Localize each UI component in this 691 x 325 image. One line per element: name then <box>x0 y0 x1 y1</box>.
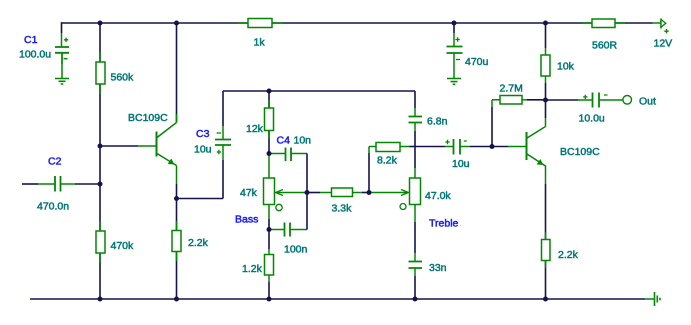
resistor 12k <box>265 108 274 131</box>
ground right end of bottom rail <box>655 292 661 306</box>
node top rail 10k <box>543 21 548 26</box>
svg-text:2.2k: 2.2k <box>188 237 209 249</box>
svg-text:1.2k: 1.2k <box>242 263 263 275</box>
resistor 560k <box>96 62 105 84</box>
wire 33n to bottom rail <box>414 268 416 276</box>
wire C1 top lead <box>61 22 63 33</box>
wire 12V lead <box>653 22 662 24</box>
resistor 1k <box>248 19 272 28</box>
wire 8.2k right to cross <box>400 146 410 148</box>
svg-text:C4: C4 <box>277 135 291 147</box>
svg-text:100n: 100n <box>284 244 308 256</box>
potentiometer Treble wiper arrow <box>401 190 409 196</box>
node top rail x100 <box>98 21 103 26</box>
svg-text:2.2k: 2.2k <box>558 249 579 261</box>
node bottom rail 33n <box>413 297 418 302</box>
potentiometer Bass wiper arrow <box>276 190 284 196</box>
power connector 12V arrow <box>660 19 662 29</box>
wire bass pot top lead <box>268 154 270 179</box>
wire output row <box>546 99 579 101</box>
svg-text:100.0u: 100.0u <box>19 49 51 61</box>
svg-text:Out: Out <box>639 96 656 108</box>
ground C1 <box>61 53 63 79</box>
svg-text:10u: 10u <box>194 144 212 156</box>
potentiometer 47k Bass body <box>264 178 275 205</box>
capacitor C1 100.0u <box>55 47 69 53</box>
node Q2 base <box>490 144 495 149</box>
node bottom rail 470k <box>98 297 103 302</box>
node collector 2.7M out <box>543 98 548 103</box>
resistor 560R <box>592 19 615 28</box>
capacitor C3 10u <box>215 140 231 146</box>
wire cross to 10u <box>415 146 445 148</box>
resistor 1.2k <box>265 255 274 276</box>
svg-text:Bass: Bass <box>235 214 258 226</box>
svg-text:BC109C: BC109C <box>128 112 168 124</box>
node pot bottom 100n <box>267 227 272 232</box>
wire C3 top to mid rail <box>222 91 224 126</box>
svg-text:12k: 12k <box>246 123 264 135</box>
capacitor C2 470.0n <box>55 176 61 192</box>
wire bottom ground rail <box>30 298 645 300</box>
svg-text:C1: C1 <box>24 34 38 46</box>
resistor 470k <box>96 231 105 253</box>
node C2 <box>98 182 103 187</box>
svg-text:470u: 470u <box>465 56 489 68</box>
wire 10k column top <box>545 23 547 48</box>
wire 1.2k column <box>268 230 270 250</box>
capacitor 33n <box>409 262 423 269</box>
svg-text:C2: C2 <box>48 156 62 168</box>
wire treble pot bottom to 33n <box>414 205 416 223</box>
resistor 2.2k left <box>172 231 181 252</box>
wire 3.3k to junction <box>353 192 363 194</box>
transistor Q1 BC109C <box>156 132 158 157</box>
svg-text:Treble: Treble <box>429 218 459 230</box>
svg-text:1k: 1k <box>254 37 266 49</box>
svg-text:470k: 470k <box>111 240 135 252</box>
wire mid rail <box>223 90 415 92</box>
capacitor 10.0u output <box>593 93 600 108</box>
ground 470u <box>453 53 455 79</box>
capacitor 470u <box>447 47 463 54</box>
node Q1 emitter <box>174 196 179 201</box>
svg-text:8.2k: 8.2k <box>377 155 398 167</box>
wire input stub to C2 <box>22 183 38 185</box>
wire bass pot bottom lead <box>268 205 270 220</box>
wire C4 row <box>269 153 286 155</box>
resistor 2.7M <box>500 96 522 105</box>
node bass wiper <box>305 190 310 195</box>
terminal Out <box>623 96 632 105</box>
wire left column x=100 <box>99 23 101 299</box>
node top rail 470u <box>452 21 457 26</box>
wire top supply rail <box>62 22 653 24</box>
svg-text:3.3k: 3.3k <box>332 203 353 215</box>
wire 2.2k left column <box>176 199 178 300</box>
wire wiper node to 3.3k <box>307 192 320 194</box>
potentiometer Bass circle <box>276 204 282 210</box>
resistor 10k <box>541 55 550 76</box>
svg-text:47k: 47k <box>240 187 258 199</box>
svg-text:6.8n: 6.8n <box>427 116 448 128</box>
node Q1 base <box>98 144 103 149</box>
resistor 2.2k right <box>542 240 551 261</box>
svg-text:47.0k: 47.0k <box>425 190 451 202</box>
svg-text:12V: 12V <box>654 38 673 50</box>
wire 470u top lead <box>453 23 455 33</box>
wire bass wiper <box>276 192 307 194</box>
svg-text:C3: C3 <box>196 128 210 140</box>
wire 12k column <box>268 91 270 154</box>
svg-text:560R: 560R <box>592 40 618 52</box>
wire treble wiper <box>369 192 408 194</box>
wire base node up to 2.7M <box>491 107 493 147</box>
svg-text:2.7M: 2.7M <box>500 83 523 95</box>
node bottom rail 2.2k right <box>543 297 548 302</box>
wire emitter node to C3 bottom <box>177 160 224 199</box>
node 12k C4 pot <box>267 151 272 156</box>
svg-text:33n: 33n <box>429 262 447 274</box>
node mid rail 12k <box>267 89 272 94</box>
wire mid rail down to 6.8n <box>414 91 416 108</box>
wire Q2 emitter down to 2.2k <box>545 166 547 185</box>
node top rail collector <box>174 21 179 26</box>
wire 10u to Q2 base node <box>460 146 470 148</box>
svg-text:10n: 10n <box>294 135 312 147</box>
potentiometer Treble circle <box>400 204 406 210</box>
wire 2.7M right to collector node <box>522 99 527 101</box>
node junction dots <box>98 21 549 302</box>
svg-text:10.0u: 10.0u <box>579 113 605 125</box>
wire collector node down to Q2 <box>545 100 547 118</box>
wire junction up to 8.2k <box>368 153 370 193</box>
svg-text:10k: 10k <box>557 61 575 73</box>
node bottom rail 2.2k <box>174 297 179 302</box>
wire 6.8n to treble pot <box>414 123 416 179</box>
svg-text:470.0n: 470.0n <box>37 201 69 213</box>
capacitor 100n <box>285 223 291 237</box>
resistor 3.3k <box>332 188 353 197</box>
node 3.3k 8.2k <box>367 190 372 195</box>
wire Q1 base <box>100 145 138 147</box>
node bottom rail 1.2k <box>267 297 272 302</box>
svg-text:BC109C: BC109C <box>560 146 600 158</box>
transistor Q2 BC109C <box>526 132 528 160</box>
svg-text:560k: 560k <box>111 72 135 84</box>
potentiometer 47.0k Treble body <box>410 178 421 205</box>
capacitor C4 10n <box>286 148 292 162</box>
capacitor 6.8n <box>409 117 423 123</box>
wire Q1 emitter down <box>176 166 178 185</box>
wire Q1 collector column <box>176 23 178 123</box>
resistor 8.2k <box>376 143 400 152</box>
wire 100n row <box>269 229 307 231</box>
capacitor 10u coupling <box>454 139 461 155</box>
svg-text:10u: 10u <box>452 158 470 170</box>
